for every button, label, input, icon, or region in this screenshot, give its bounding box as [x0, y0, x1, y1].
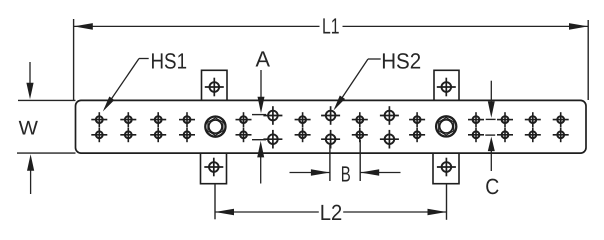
terminal strip body	[76, 100, 587, 153]
svg-text:L1: L1	[322, 13, 340, 38]
svg-text:HS1: HS1	[151, 48, 188, 73]
B dimension left arrow	[290, 169, 330, 176]
terminal pair (small holes) column 3	[150, 112, 166, 142]
svg-text:W: W	[19, 118, 39, 140]
A bottom extension line	[252, 139, 266, 141]
L1 dimension line with arrowheads	[74, 23, 588, 30]
L2 left extension line	[214, 184, 216, 220]
svg-text:L2: L2	[320, 200, 343, 225]
L2 right extension line	[446, 184, 448, 220]
L1 right extension line	[587, 20, 589, 100]
terminal pair (small holes) column 4	[179, 112, 195, 142]
svg-text:HS2: HS2	[381, 48, 421, 73]
terminal pair (small holes) column 2	[120, 112, 136, 142]
terminal pair (large holes) column 1	[263, 106, 282, 148]
top mounting tab right	[434, 70, 459, 101]
mounting hole bottom-right tab	[437, 158, 456, 177]
hex bushing left	[205, 117, 225, 137]
W top extension line	[18, 99, 76, 101]
L1 left extension line	[73, 19, 75, 100]
mounting hole top-right tab	[437, 78, 456, 97]
C bottom extension line	[485, 134, 495, 136]
top mounting tab left	[202, 70, 228, 101]
label HS2	[381, 48, 421, 73]
terminal pair (small holes) column 10	[497, 112, 513, 142]
A dimension bottom arrow	[257, 141, 264, 184]
bottom mounting tab left	[201, 153, 227, 184]
terminal pair (large holes) column 3	[380, 106, 399, 148]
label L1	[322, 13, 340, 38]
label C	[485, 174, 499, 199]
B left extension line	[329, 145, 331, 181]
A dimension top arrow	[258, 70, 265, 113]
W dimension bottom arrow	[27, 154, 34, 194]
W dimension top arrow	[26, 62, 33, 99]
terminal pair (small holes) column 5	[236, 112, 252, 142]
C dimension top arrow	[488, 81, 495, 118]
svg-text:C: C	[485, 174, 499, 199]
terminal pair (small holes) column 1	[91, 112, 107, 142]
HS2 leader with arrow	[334, 59, 381, 111]
terminal pair (small holes) column 9	[468, 112, 484, 142]
label HS1	[151, 48, 188, 73]
HS1 leader with arrow	[103, 59, 149, 112]
A top extension line	[252, 114, 266, 116]
svg-text:A: A	[256, 47, 271, 72]
terminal pair (small holes) column 8	[409, 112, 425, 142]
mounting hole top-left tab	[205, 78, 224, 97]
svg-text:B: B	[341, 161, 351, 186]
label A	[256, 47, 271, 72]
W bottom extension line	[17, 152, 76, 154]
mounting hole bottom-left tab	[204, 158, 223, 177]
B right extension line	[359, 140, 361, 181]
L2 dimension line with arrowheads	[215, 209, 447, 216]
terminal pair (small holes) column 11	[525, 112, 541, 142]
hex bushing right	[436, 116, 456, 136]
bottom mounting tab right	[433, 153, 459, 184]
terminal pair (small holes) column 6	[295, 112, 311, 142]
C top extension line	[486, 118, 496, 120]
label B	[341, 161, 351, 186]
terminal pair (small holes) column 7	[352, 112, 368, 142]
C dimension bottom arrow	[488, 137, 495, 171]
terminal pair (large holes) column 2	[321, 106, 340, 148]
B dimension right arrow	[360, 169, 400, 176]
label L2	[320, 200, 343, 225]
label W	[19, 118, 39, 140]
terminal pair (small holes) column 12	[553, 112, 569, 142]
